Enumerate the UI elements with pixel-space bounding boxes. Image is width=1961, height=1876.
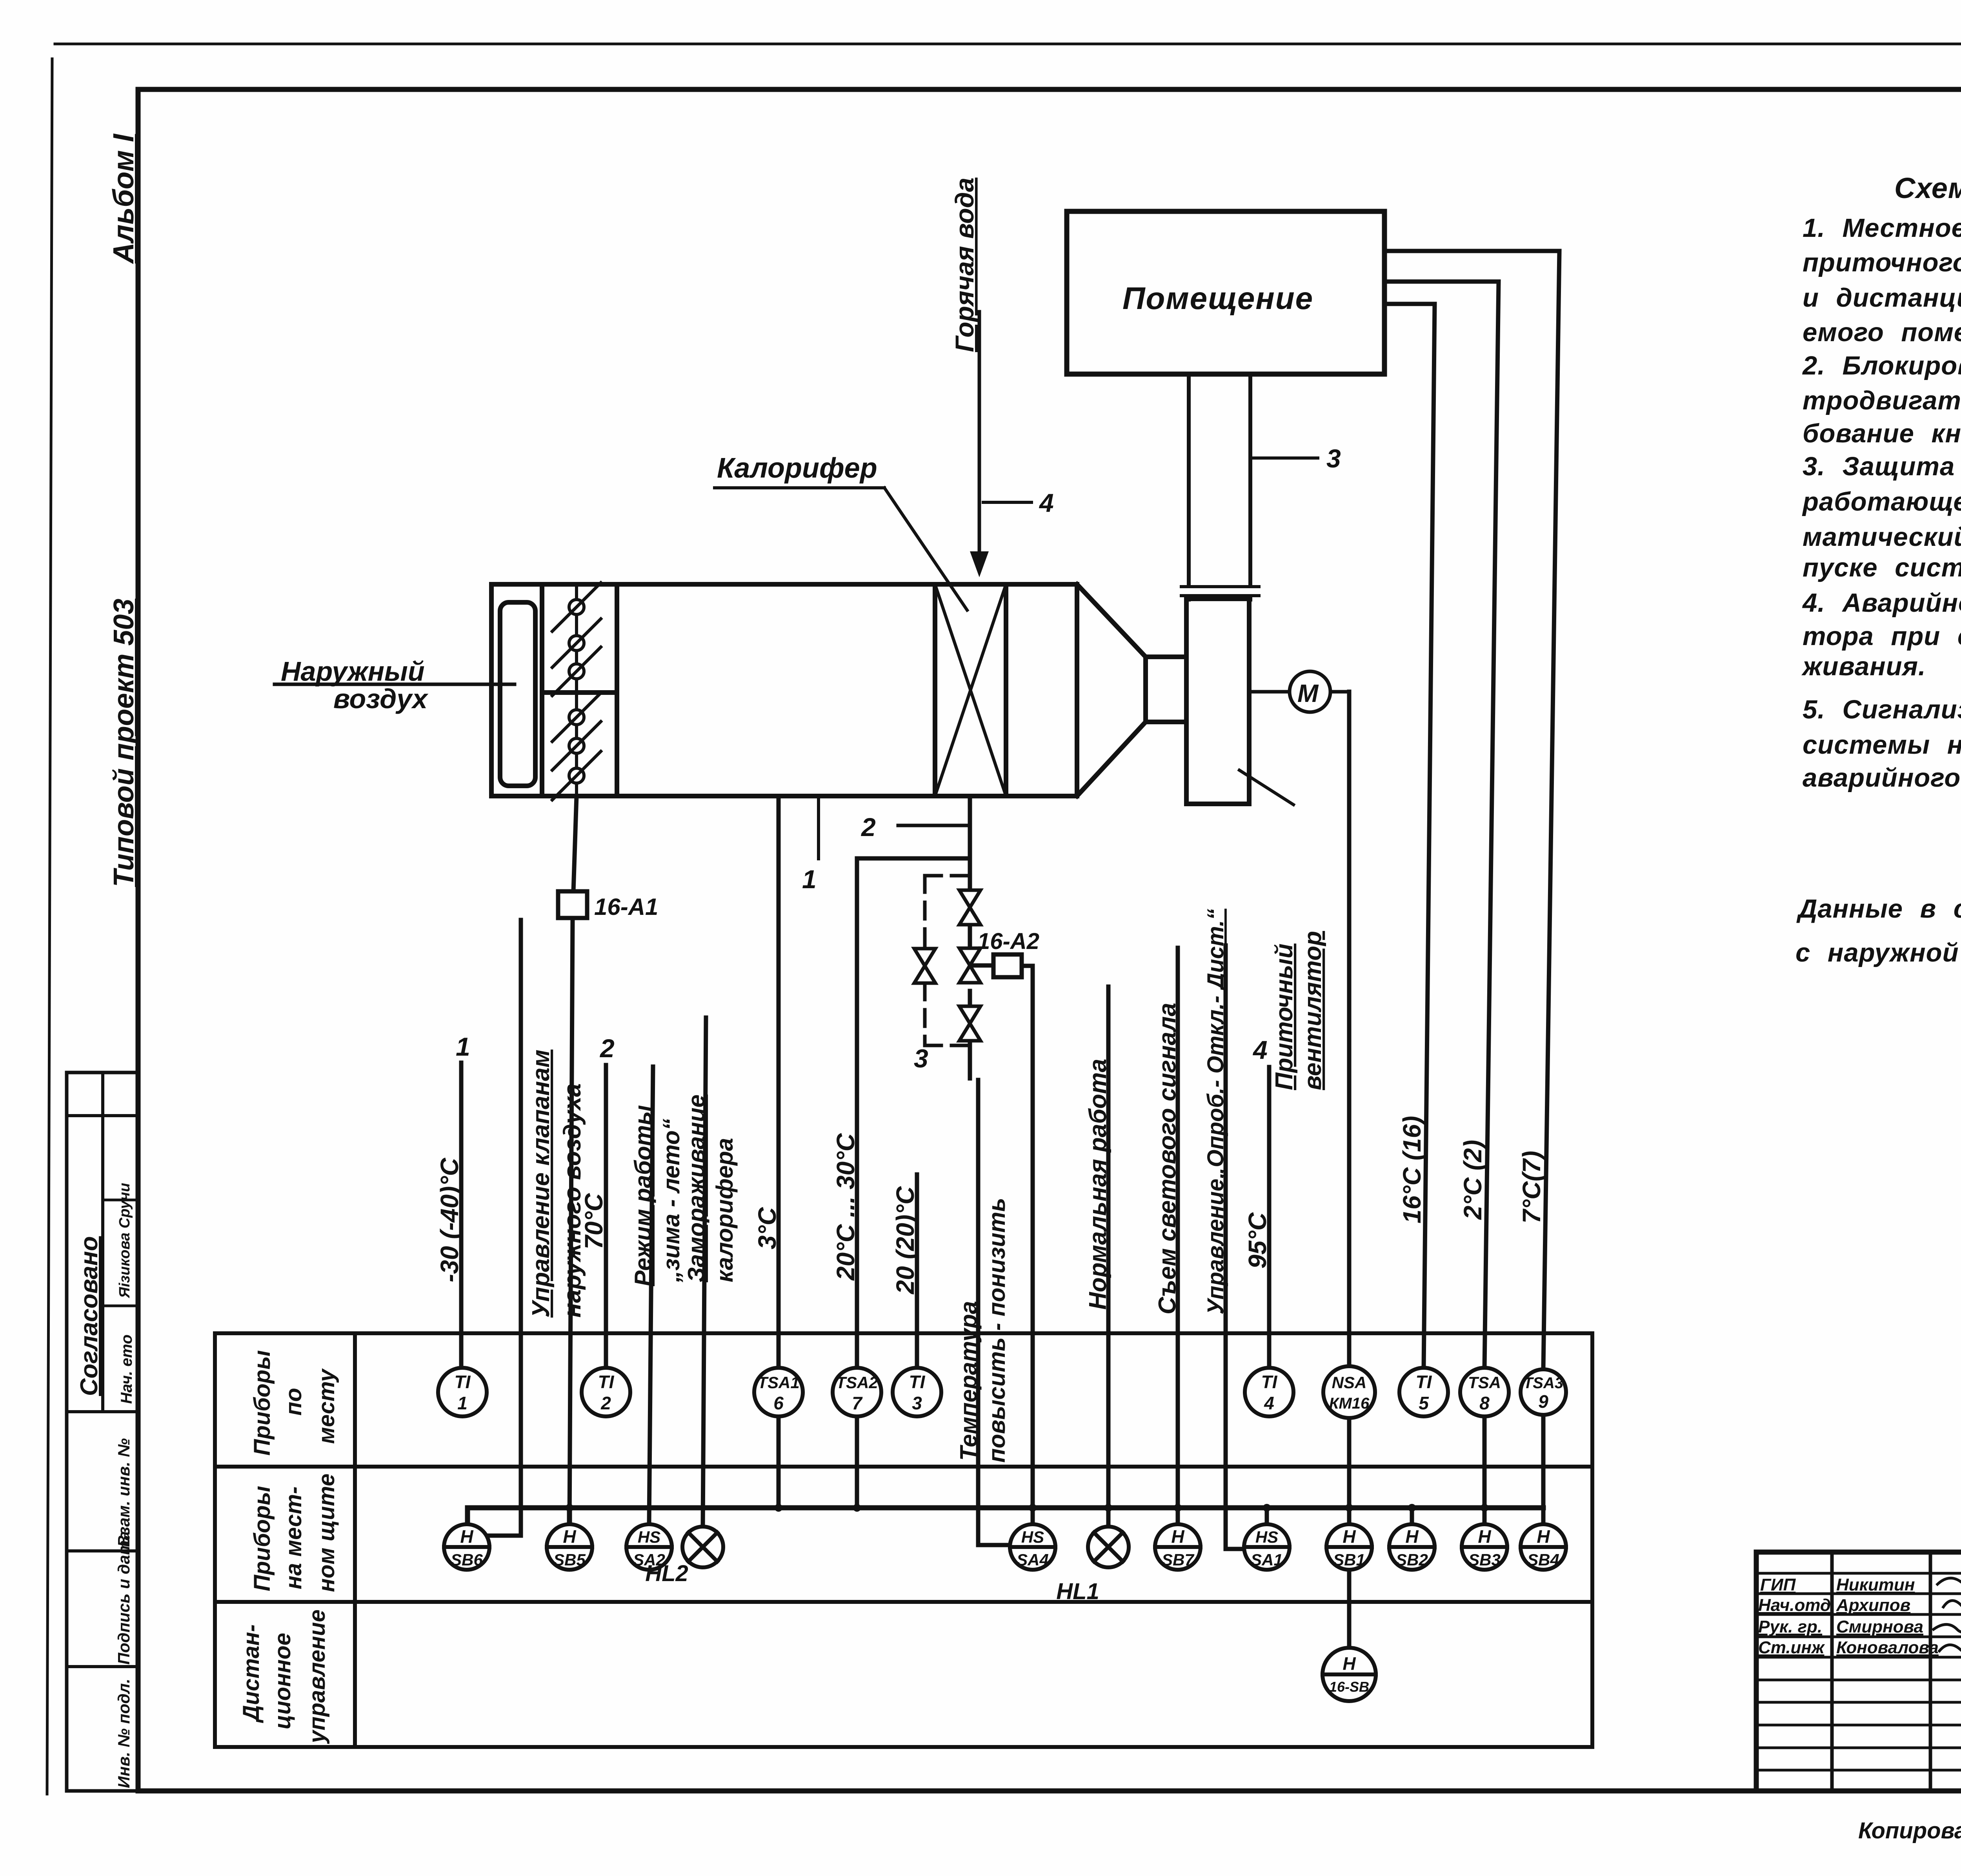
cone top <box>1077 584 1146 657</box>
svg-text:4. Аварийное отключение прит: 4. Аварийное отключение приточного венти… <box>1802 588 1961 618</box>
svg-text:с наружной температурой во: с наружной температурой воздуха - 40°С. <box>1795 938 1961 967</box>
valve V1 <box>959 890 980 925</box>
svg-text:ТI: ТI <box>1416 1372 1432 1392</box>
svg-text:2: 2 <box>599 1034 615 1063</box>
bus junction dots <box>566 1504 1488 1512</box>
wire SA1 stem <box>1265 1508 1269 1524</box>
svg-text:3°С: 3°С <box>753 1207 781 1249</box>
PART:LEFTCOL <box>275 178 1384 1090</box>
button H 16-SB <box>1322 1648 1376 1701</box>
hot water pipe with valves <box>968 796 972 1078</box>
svg-text:Яiзикова Сручи: Яiзикова Сручи <box>116 1183 133 1298</box>
room box Помещение <box>1067 211 1384 374</box>
svg-text:Ст.инж: Ст.инж <box>1758 1638 1825 1657</box>
svg-text:ГИП: ГИП <box>1760 1575 1796 1594</box>
designer names <box>1758 1575 1939 1657</box>
damper axis <box>575 584 578 796</box>
svg-text:Никитин: Никитин <box>1836 1575 1915 1594</box>
svg-text:SА1: SА1 <box>1251 1551 1283 1569</box>
svg-text:калорифера: калорифера <box>711 1138 738 1282</box>
svg-text:4: 4 <box>1252 1035 1268 1064</box>
svg-text:16-А2: 16-А2 <box>977 929 1039 954</box>
wire SB6 damper control <box>486 920 521 1536</box>
fan box <box>1186 599 1249 804</box>
svg-text:тора при срабатывании защиты: тора при срабатывании защиты от замора- <box>1803 622 1961 651</box>
svg-text:SВ6: SВ6 <box>451 1551 483 1569</box>
louvre grille <box>500 602 535 786</box>
Калорифер underline <box>715 486 884 489</box>
lamp HL2 <box>645 1527 723 1586</box>
svg-text:матический прогрев калориф: матический прогрев калорифера при <box>1803 522 1961 552</box>
panel bus <box>468 1508 1543 1524</box>
wire TI1 sensor <box>459 1063 464 1368</box>
svg-text:16°С (16): 16°С (16) <box>1398 1116 1426 1223</box>
svg-text:1: 1 <box>802 865 817 894</box>
svg-text:Данные в скобках относятся: Данные в скобках относятся к варианту <box>1796 894 1961 923</box>
PART:FRAME <box>67 133 140 1791</box>
svg-text:Инв. № подл.: Инв. № подл. <box>115 1679 133 1788</box>
svg-text:1: 1 <box>456 1032 470 1061</box>
svg-text:HL1: HL1 <box>1056 1579 1099 1604</box>
Калорифер leader <box>884 488 967 610</box>
svg-text:SВ1: SВ1 <box>1333 1551 1365 1569</box>
svg-text:Горячая вода: Горячая вода <box>950 178 979 352</box>
svg-text:ТSА3: ТSА3 <box>1523 1374 1563 1392</box>
svg-text:2: 2 <box>860 813 876 842</box>
duct position tick 3 <box>1253 456 1318 460</box>
svg-text:SВ2: SВ2 <box>1396 1551 1428 1569</box>
damper blade 6 <box>552 751 601 800</box>
stamp column divider below Согласовано <box>67 1410 138 1413</box>
svg-text:SВ7: SВ7 <box>1162 1551 1194 1569</box>
thermostat TSA2-7 <box>833 1368 881 1416</box>
svg-text:Коновалова: Коновалова <box>1836 1638 1939 1657</box>
svg-text:Рук. гр.: Рук. гр. <box>1758 1617 1822 1636</box>
svg-text:Помещение: Помещение <box>1122 281 1313 316</box>
svg-text:Приборы: Приборы <box>249 1350 275 1456</box>
hot water position tick 4 <box>983 501 1031 504</box>
wire HL1 lamp <box>1106 987 1111 1527</box>
hot water arrowhead <box>970 551 989 577</box>
stamp column name sub-divider 2 <box>103 1305 138 1307</box>
svg-text:Типовой проект 503: Типовой проект 503 <box>108 599 140 887</box>
stamp column inner vertical <box>101 1073 104 1412</box>
svg-text:1. Местное управление электр: 1. Местное управление электродвигателем <box>1803 213 1961 243</box>
damper blade 3 <box>552 647 601 696</box>
PART:AHU <box>435 251 1559 1647</box>
wire TSA2 capillary <box>857 858 970 1508</box>
wire room to TSA8 <box>1384 282 1499 1524</box>
svg-text:5. Сигнализация нормальной р: 5. Сигнализация нормальной работы приточ… <box>1803 695 1961 724</box>
svg-text:1: 1 <box>457 1393 468 1413</box>
svg-text:16-А1: 16-А1 <box>594 894 658 920</box>
heater left wall <box>933 584 937 796</box>
svg-text:SВ4: SВ4 <box>1527 1551 1559 1569</box>
button H SB3 <box>1462 1524 1507 1570</box>
svg-text:3: 3 <box>912 1393 922 1413</box>
heater cross diagonal 2 <box>935 584 1006 796</box>
wire SA1 command <box>1226 945 1244 1549</box>
thermometer TI2 <box>582 1368 630 1416</box>
cone bottom <box>1077 722 1146 796</box>
wire room to TSA9 <box>1384 251 1559 1524</box>
svg-text:Взам. инв. №: Взам. инв. № <box>115 1438 133 1547</box>
svg-text:по: по <box>281 1388 306 1416</box>
discharge duct right <box>1248 374 1252 585</box>
svg-text:Н: Н <box>1478 1526 1491 1547</box>
damper blade 2 <box>552 619 601 667</box>
thermostat TSA1-6 <box>754 1368 803 1416</box>
title block outer box <box>1756 1552 1961 1791</box>
svg-text:4: 4 <box>1264 1393 1274 1413</box>
svg-text:Режим работы: Режим работы <box>630 1105 656 1286</box>
svg-text:8: 8 <box>1479 1393 1490 1413</box>
heater cross diagonal 1 <box>935 584 1006 796</box>
svg-text:3: 3 <box>1326 444 1341 473</box>
wire 16-A2 to SA4 <box>1022 966 1033 1524</box>
svg-text:Калорифер: Калорифер <box>717 453 877 484</box>
svg-text:SА4: SА4 <box>1017 1551 1049 1569</box>
bypass dashed pipe <box>925 876 970 1045</box>
button H SB6 <box>444 1524 489 1570</box>
svg-text:тродвигателем приточного вент: тродвигателем приточного вентилятора, ап… <box>1803 386 1961 415</box>
starter NSA KM16 <box>1323 1366 1375 1418</box>
title block left grid <box>1832 1552 1961 1791</box>
svg-text:НS: НS <box>1021 1528 1044 1546</box>
svg-text:Схемой: Схемой <box>1894 172 1961 204</box>
label Приточный вентилятор <box>1271 931 1326 1090</box>
svg-text:ТSА1: ТSА1 <box>757 1373 799 1392</box>
svg-text:управление: управление <box>304 1609 330 1744</box>
canvas joint <box>1181 587 1259 596</box>
motor lead left <box>1249 690 1290 694</box>
svg-text:6: 6 <box>773 1393 784 1413</box>
svg-text:живания.: живания. <box>1801 652 1926 681</box>
PART:RIGHTTEXT <box>1756 1416 1961 1843</box>
plenum end wall <box>1075 584 1079 796</box>
instrument table grid <box>215 1333 1592 1747</box>
heater right wall <box>1004 584 1008 796</box>
signature squiggles <box>1934 1578 1961 1652</box>
hot water line <box>978 312 981 552</box>
svg-text:Архипов: Архипов <box>1836 1596 1910 1615</box>
svg-text:Подпись и дата: Подпись и дата <box>115 1531 133 1665</box>
svg-text:Альбом I: Альбом I <box>107 133 140 264</box>
thermostat TSA-8 <box>1460 1368 1509 1416</box>
switch HS SA1 <box>1244 1524 1290 1570</box>
damper blade 1 <box>552 583 601 631</box>
wire SA2 mode switch <box>649 1067 653 1524</box>
sheet edge left line <box>47 59 52 1794</box>
damper mid divider <box>542 690 617 695</box>
svg-text:ТI: ТI <box>909 1372 926 1392</box>
wire TI2 sensor <box>604 1065 608 1368</box>
svg-text:Н: Н <box>1343 1526 1356 1547</box>
svg-text:2: 2 <box>600 1393 611 1413</box>
svg-text:вентилятор: вентилятор <box>1299 931 1326 1090</box>
svg-text:Н: Н <box>460 1526 473 1547</box>
svg-text:Управление„Опроб.- Откл.- Дист: Управление„Опроб.- Откл.- Дист.“ <box>1203 909 1228 1314</box>
button H SB7 <box>1155 1524 1201 1570</box>
stamp column top cell divider <box>67 1114 138 1117</box>
svg-text:ном щите: ном щите <box>314 1474 339 1592</box>
svg-text:Н: Н <box>1171 1526 1184 1547</box>
duct position tick 1 <box>817 798 820 859</box>
button H SB2 <box>1389 1524 1435 1570</box>
PART:WIRES <box>215 1333 1592 1747</box>
svg-text:системы на щите управления: системы на щите управления и сигнализаци… <box>1803 730 1961 760</box>
svg-text:20°С ... 30°С: 20°С ... 30°С <box>831 1133 860 1281</box>
discharge duct left <box>1187 374 1191 585</box>
svg-text:воздух: воздух <box>333 684 429 714</box>
damper blade 4 <box>552 693 601 742</box>
svg-text:Наружный: Наружный <box>281 656 425 687</box>
duct stub to fan <box>1189 596 1250 600</box>
header Приборы на местном щите <box>249 1474 339 1592</box>
stamp column divider Подпись/Инв <box>67 1665 138 1668</box>
actuator box 16-A1 <box>558 891 587 918</box>
header Приборы по месту <box>249 1350 339 1456</box>
button H SB1 <box>1326 1524 1372 1570</box>
svg-text:НS: НS <box>1255 1528 1278 1546</box>
svg-text:-30 (-40)°С: -30 (-40)°С <box>435 1158 464 1282</box>
sheet edge top line <box>55 43 1961 45</box>
svg-text:Н: Н <box>1405 1526 1419 1547</box>
svg-text:емого помещения.: емого помещения. <box>1803 318 1961 347</box>
wire damper actuator to SB5 <box>569 796 577 1524</box>
motor wire right <box>1330 690 1349 694</box>
louvre divider <box>540 584 544 796</box>
bypass valve <box>914 949 935 983</box>
thermometer TI4 <box>1245 1368 1293 1416</box>
switch HS SA4 <box>1010 1524 1055 1570</box>
motor M <box>1290 671 1330 712</box>
svg-text:ТI: ТI <box>598 1372 615 1392</box>
svg-text:М: М <box>1297 679 1319 707</box>
neck <box>1146 657 1186 722</box>
stamp column outer box <box>67 1073 138 1791</box>
svg-text:Приборы: Приборы <box>249 1486 275 1591</box>
label underline Наружный <box>275 683 515 686</box>
wire TI3 sensor <box>915 1174 919 1368</box>
pipe position tick 2 <box>898 824 970 827</box>
svg-text:HL2: HL2 <box>645 1561 688 1586</box>
damper blade 5 <box>552 722 601 770</box>
header Дистанционное управление <box>238 1609 330 1744</box>
svg-text:и дистанционное управление и: и дистанционное управление из обслужива- <box>1803 283 1961 313</box>
svg-text:ционное: ционное <box>270 1633 295 1729</box>
svg-text:Нач.отд: Нач.отд <box>1758 1596 1831 1615</box>
wire motor to NSA KM16 <box>1347 692 1352 1524</box>
svg-text:7°С(7): 7°С(7) <box>1517 1151 1546 1223</box>
wire room to TI5 <box>1384 304 1435 1368</box>
svg-text:Смирнова: Смирнова <box>1836 1617 1923 1636</box>
valve V2 <box>959 948 980 983</box>
label Температура повысить-понизить <box>955 1198 1010 1463</box>
wire HL2 lamp <box>703 1018 706 1527</box>
svg-text:работающей и неработающей сис: работающей и неработающей системе, авто- <box>1802 487 1961 516</box>
svg-text:бование кнопками по месту: бование кнопками по месту со щита. <box>1803 419 1961 448</box>
svg-text:3: 3 <box>914 1044 928 1073</box>
svg-text:Нач. ето: Нач. ето <box>118 1334 135 1404</box>
svg-text:пуске системы.: пуске системы. <box>1803 553 1961 582</box>
wire SB2 stem <box>1410 1508 1414 1524</box>
switch HS SA2 <box>626 1524 672 1570</box>
svg-text:Замораживание: Замораживание <box>683 1094 709 1282</box>
actuator box 16-A2 <box>970 963 993 968</box>
AHU casing <box>491 584 1077 796</box>
svg-text:ТI: ТI <box>1261 1372 1278 1392</box>
svg-text:НS: НS <box>638 1528 660 1546</box>
lamp HL1 <box>1056 1527 1129 1604</box>
fan label leader <box>1239 770 1293 805</box>
svg-text:ТI: ТI <box>455 1372 471 1392</box>
svg-text:аварийного отключения прито: аварийного отключения приточной системы. <box>1803 763 1961 793</box>
wire TSA1 capillary <box>777 796 781 1508</box>
svg-text:Н: Н <box>563 1526 576 1547</box>
svg-text:Приточный: Приточный <box>1271 943 1298 1090</box>
label Управление клапанам наружного воздуха <box>528 1049 586 1318</box>
svg-text:16-SВ: 16-SВ <box>1329 1679 1369 1695</box>
svg-text:20 (20)°С: 20 (20)°С <box>891 1186 919 1294</box>
label Режим работы зима-лето <box>630 1105 684 1286</box>
svg-text:9: 9 <box>1538 1391 1548 1412</box>
thermometer TI5 <box>1399 1368 1448 1416</box>
wire TI4 sensor <box>1267 1067 1272 1368</box>
svg-text:Согласовано: Согласовано <box>76 1236 103 1396</box>
damper section divider <box>615 584 619 796</box>
stamp column name sub-divider 1 <box>103 1199 138 1202</box>
svg-text:NSА: NSА <box>1332 1373 1367 1392</box>
svg-text:7: 7 <box>852 1393 863 1413</box>
label Замораживание калорифера <box>683 1094 738 1282</box>
svg-text:5: 5 <box>1419 1393 1429 1413</box>
wire SA4 temp command <box>978 1080 1010 1545</box>
thermometer TI3 <box>893 1368 941 1416</box>
svg-text:повысить - понизить: повысить - понизить <box>984 1198 1010 1463</box>
svg-text:Управление клапанам: Управление клапанам <box>528 1049 555 1318</box>
svg-text:Н: Н <box>1343 1653 1356 1674</box>
svg-text:2°С (2): 2°С (2) <box>1459 1140 1487 1220</box>
svg-text:ТSА2: ТSА2 <box>836 1373 878 1392</box>
notes text block <box>1795 172 1961 967</box>
wire SB7 reset <box>1176 948 1180 1524</box>
valve V3 <box>959 1006 980 1041</box>
svg-text:Дистан-: Дистан- <box>238 1624 264 1723</box>
wire SB1 to 16-SB <box>1347 1570 1352 1647</box>
thermostat TSA3-9 <box>1521 1369 1566 1415</box>
svg-text:„зима - лето“: „зима - лето“ <box>658 1119 684 1283</box>
svg-text:4: 4 <box>1039 488 1054 517</box>
svg-text:приточного вентилятора са щита: приточного вентилятора са щита управлени… <box>1803 248 1961 277</box>
button H SB5 <box>547 1524 592 1570</box>
label Наружный воздух <box>281 656 429 714</box>
stamp column divider Взам/Подпись <box>67 1549 138 1552</box>
svg-text:месту: месту <box>314 1368 339 1444</box>
svg-text:на мест-: на мест- <box>281 1487 306 1589</box>
svg-text:КМ16: КМ16 <box>1329 1395 1370 1412</box>
svg-text:Н: Н <box>1537 1526 1550 1547</box>
svg-text:SВ5: SВ5 <box>553 1551 586 1569</box>
svg-text:2. Блокировка клапана наружн: 2. Блокировка клапана наружного воздуха … <box>1802 351 1961 380</box>
svg-text:3. Защита калорифера от замора: 3. Защита калорифера от замораживания пр… <box>1803 452 1961 481</box>
svg-text:Копировал: Сунтеева: Копировал: Сунтеева <box>1858 1818 1961 1843</box>
svg-text:Съем светового сигнала: Съем светового сигнала <box>1154 1003 1181 1314</box>
thermometer TI1 <box>438 1368 487 1416</box>
svg-text:95°С: 95°С <box>1243 1212 1272 1269</box>
button H SB4 <box>1521 1524 1566 1570</box>
svg-text:Нормальная работа: Нормальная работа <box>1084 1059 1111 1310</box>
svg-text:SВ3: SВ3 <box>1468 1551 1501 1569</box>
svg-text:Температура: Температура <box>955 1301 982 1461</box>
svg-text:ТSА: ТSА <box>1468 1373 1501 1392</box>
